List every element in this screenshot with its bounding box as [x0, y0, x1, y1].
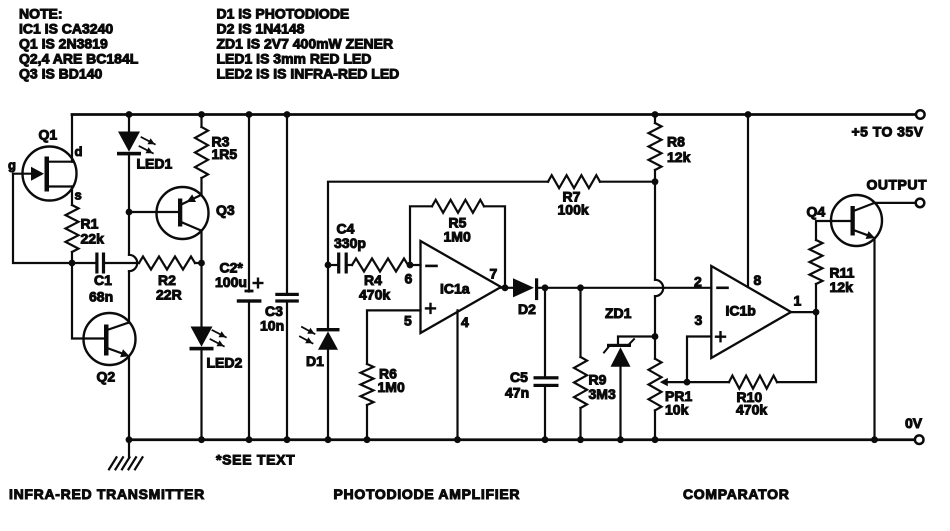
transistor Q1 gate lead: [13, 173, 31, 175]
node C5 junction: [542, 284, 549, 291]
wire node to C4: [328, 264, 337, 266]
node rail/R3 junction: [198, 111, 205, 118]
svg-text:LED2: LED2: [207, 354, 243, 370]
LED LED1: [118, 132, 140, 152]
wire top supply rail +5V: [72, 113, 916, 116]
capacitor C2: [245, 290, 254, 293]
svg-text:1M0: 1M0: [378, 379, 405, 395]
wire R11 to Q4 base: [816, 221, 851, 240]
wire node to C5: [544, 288, 546, 377]
transistor Q4 base bar: [851, 206, 855, 236]
node output/R10/R11 junction: [813, 309, 820, 316]
svg-text:IC1b: IC1b: [726, 303, 756, 319]
wire Q3 collector to node: [200, 231, 202, 263]
transistor Q4 collector: [855, 203, 875, 211]
resistor R4: [352, 259, 408, 272]
transistor Q1 source lead: [47, 185, 73, 187]
wire node X to ZD1: [618, 337, 655, 345]
wire R3 to Q3 emitter: [200, 178, 202, 195]
LED2 light arrows: [213, 330, 226, 337]
node R9 junction: [577, 284, 584, 291]
transistor Q4 body: [831, 195, 882, 246]
node C5/rail junction: [542, 436, 549, 443]
svg-text:10n: 10n: [260, 317, 284, 333]
wire PR1 to rail: [654, 410, 656, 439]
wire LED1 to base node: [128, 155, 130, 212]
preset PR1: [649, 359, 662, 411]
svg-text:D1 IS PHOTODIODE: D1 IS PHOTODIODE: [217, 5, 350, 21]
svg-text:LED2 IS IS INFRA-RED LED: LED2 IS IS INFRA-RED LED: [217, 65, 400, 81]
wire Q1 gate feedback: [13, 174, 72, 263]
IC1a minus sign: [427, 265, 437, 268]
transistor Q1 body: [23, 147, 77, 201]
node ZD1 wire junction: [652, 333, 659, 340]
svg-text:LED1 IS 3mm RED LED: LED1 IS 3mm RED LED: [217, 50, 372, 66]
svg-text:ZD1: ZD1: [605, 305, 632, 321]
svg-text:Q2: Q2: [97, 368, 116, 384]
resistor R7: [548, 175, 600, 188]
wire wiper to pin 3: [687, 337, 711, 383]
wire bottom 0V rail: [129, 438, 915, 441]
IC1a plus sign: [426, 307, 435, 309]
wire R5 right leg: [484, 206, 505, 287]
resistor R3: [195, 127, 208, 178]
photodiode D1: [317, 328, 340, 331]
wire hop to ZD1 node: [654, 296, 656, 336]
wire rail to C2: [248, 115, 250, 292]
svg-text:D2 IS 1N4148: D2 IS 1N4148: [217, 20, 305, 36]
terminal 0V: [915, 435, 924, 444]
svg-text:*SEE TEXT: *SEE TEXT: [216, 452, 295, 468]
wire R1 bottom: [71, 252, 73, 263]
wire amp top feedback left: [328, 182, 548, 265]
svg-text:2: 2: [694, 274, 702, 290]
svg-text:330p: 330p: [334, 235, 366, 251]
svg-text:1M0: 1M0: [444, 228, 471, 244]
svg-text:Q1: Q1: [39, 127, 58, 143]
node wiper junction: [684, 379, 691, 386]
node R9/rail junction: [577, 436, 584, 443]
svg-text:s: s: [75, 188, 82, 203]
resistor R5: [432, 200, 484, 213]
IC1b plus sign: [716, 336, 725, 338]
wire pin 4 to rail: [456, 310, 458, 439]
transistor Q3 collector: [182, 223, 201, 231]
wire hop over pin2 wire: [655, 280, 663, 296]
wire C1 node to Q2 base: [72, 263, 104, 339]
svg-text:8: 8: [754, 272, 762, 288]
node LED2/rail junction: [198, 436, 205, 443]
svg-text:D2: D2: [518, 301, 536, 317]
terminal +5V supply: [916, 110, 925, 119]
node rail/C2 junction: [246, 111, 253, 118]
wire output node to R11: [815, 284, 817, 312]
svg-text:COMPARATOR: COMPARATOR: [683, 486, 790, 502]
svg-text:1: 1: [794, 292, 802, 308]
node X R7/R8 junction: [652, 178, 659, 185]
svg-text:4: 4: [461, 314, 469, 330]
wire R5 left leg: [410, 206, 432, 265]
svg-text:5: 5: [404, 313, 412, 329]
svg-text:PHOTODIODE AMPLIFIER: PHOTODIODE AMPLIFIER: [334, 486, 521, 502]
wire Q4 collector to output terminal: [875, 202, 916, 204]
wire node down to hop: [128, 212, 130, 255]
IC1b minus sign: [718, 286, 728, 289]
capacitor C3: [275, 293, 299, 296]
wire R8 to node X: [654, 170, 656, 182]
transistor Q1 drain lead: [47, 161, 73, 163]
svg-text:IC1 IS CA3240: IC1 IS CA3240: [19, 20, 113, 36]
resistor R1: [66, 205, 79, 252]
svg-text:1R5: 1R5: [212, 146, 238, 162]
svg-text:470k: 470k: [736, 401, 767, 417]
resistor R11: [810, 240, 823, 284]
svg-text:NOTE:: NOTE:: [19, 5, 63, 21]
svg-text:100k: 100k: [558, 202, 589, 218]
svg-text:12k: 12k: [667, 149, 691, 165]
svg-text:Q4: Q4: [807, 204, 826, 220]
node C2/rail junction: [246, 436, 253, 443]
node rail/R8 junction: [652, 111, 659, 118]
node D1/rail junction: [325, 436, 332, 443]
svg-text:D1: D1: [306, 353, 324, 369]
zener ZD1: [607, 344, 631, 347]
svg-text:Q1 IS 2N3819: Q1 IS 2N3819: [19, 35, 108, 51]
svg-text:Q3: Q3: [216, 202, 235, 218]
svg-text:100u: 100u: [215, 274, 247, 290]
svg-text:C5: C5: [510, 369, 528, 385]
node R2/Q3 collector junction: [198, 260, 205, 267]
transistor Q2 base bar: [104, 325, 109, 356]
svg-text:10k: 10k: [665, 402, 689, 418]
transistor Q2 body: [84, 313, 136, 365]
wire rail to C3: [286, 115, 288, 294]
wire C2 to rail: [248, 303, 250, 440]
wire output to D2: [501, 287, 513, 289]
node IC1a output junction: [502, 284, 509, 291]
node ZD1/rail junction: [617, 436, 624, 443]
wire rail to R8: [654, 115, 656, 124]
svg-text:3: 3: [695, 312, 703, 328]
resistor R10: [729, 376, 777, 389]
svg-text:R11: R11: [830, 265, 855, 281]
node Q4 emitter/rail junction: [871, 436, 878, 443]
node R6/rail junction: [364, 436, 371, 443]
wire ZD1 to rail: [619, 367, 621, 440]
capacitor C5: [534, 376, 559, 379]
wire C3 to rail: [286, 303, 288, 440]
wire junction to C1: [72, 262, 96, 264]
PR1 wiper arrow: [660, 378, 668, 386]
wire hop to Q2 collector: [128, 271, 130, 322]
wire LED2 to rail: [200, 350, 202, 439]
diode D2: [513, 278, 534, 297]
wire Q1 source to R1: [71, 187, 73, 206]
svg-text:Q2,4 ARE BC184L: Q2,4 ARE BC184L: [19, 50, 139, 66]
terminal OUTPUT: [916, 199, 925, 208]
transistor Q3 base bar: [178, 199, 182, 227]
wire node to D1: [327, 265, 329, 329]
wire IC1b output: [791, 311, 816, 313]
svg-text:C1: C1: [94, 272, 112, 288]
svg-text:IC1a: IC1a: [440, 280, 470, 296]
svg-text:LED1: LED1: [137, 156, 173, 172]
wire C5 to rail: [544, 387, 546, 440]
svg-text:0V: 0V: [905, 415, 923, 431]
svg-text:Q3 IS BD140: Q3 IS BD140: [19, 65, 102, 81]
wire D1 to rail: [327, 350, 329, 440]
wire rail to LED1: [128, 115, 130, 133]
transistor Q1 channel bar: [45, 157, 50, 192]
wire pin 8 supply: [747, 115, 749, 288]
svg-text:3M3: 3M3: [589, 386, 616, 402]
node R1/C1/gate junction: [69, 260, 76, 267]
wire Q3 base lead: [129, 211, 178, 213]
wire hop over C1-R2 wire: [129, 255, 137, 271]
wire Q4 emitter to rail: [873, 238, 875, 440]
svg-text:ZD1 IS 2V7 400mW ZENER: ZD1 IS 2V7 400mW ZENER: [217, 35, 394, 51]
wire rail to Q1 drain: [71, 115, 73, 162]
ground: [128, 440, 130, 458]
wire Q2 emitter to rail: [128, 356, 130, 440]
transistor Q2 emitter: [109, 349, 126, 355]
wire node X down to hop: [654, 182, 656, 280]
resistor R6: [361, 364, 374, 405]
resistor R8: [649, 123, 662, 170]
C2 plus sign: [254, 282, 263, 284]
wire pin 5 to R6: [367, 310, 421, 364]
wire R2 right: [195, 262, 202, 264]
D1 light arrows: [302, 327, 315, 334]
resistor R9: [574, 357, 587, 408]
wire wiper to R10: [687, 381, 729, 383]
svg-text:47n: 47n: [505, 385, 529, 401]
LED1 light arrows: [142, 137, 155, 144]
svg-text:68n: 68n: [89, 289, 113, 305]
svg-text:d: d: [75, 144, 83, 159]
svg-text:g: g: [8, 158, 16, 173]
wire R10 to output node: [777, 312, 816, 382]
transistor Q3 emitter: [182, 195, 201, 204]
svg-text:+5 TO 35V: +5 TO 35V: [852, 124, 924, 140]
wire rail to R3: [200, 115, 202, 128]
svg-text:OUTPUT: OUTPUT: [867, 176, 928, 192]
node C4/D1 junction: [325, 262, 332, 269]
svg-text:INFRA-RED TRANSMITTER: INFRA-RED TRANSMITTER: [9, 486, 205, 502]
svg-text:22k: 22k: [81, 231, 105, 247]
transistor Q3 body: [157, 187, 209, 239]
transistor Q4 emitter: [855, 231, 871, 237]
resistor R2: [139, 257, 195, 270]
svg-text:R1: R1: [81, 215, 99, 231]
capacitor C4 plates: [337, 253, 340, 274]
wire D2 to comparator pin2: [538, 287, 712, 289]
wire R6 to rail: [366, 405, 368, 440]
op-amp IC1b: [711, 266, 791, 358]
node R4/R5/pin6 junction: [407, 262, 414, 269]
wire R9 to rail: [579, 408, 581, 440]
wire node to LED2: [200, 263, 202, 327]
node PR1/rail junction: [652, 436, 659, 443]
svg-text:7: 7: [490, 266, 498, 282]
wire R7 to node X: [600, 181, 655, 183]
LED LED2: [191, 327, 213, 347]
node rail/LED1 junction: [126, 111, 133, 118]
svg-text:470k: 470k: [359, 287, 390, 303]
node rail/pin8 junction: [745, 111, 752, 118]
node Q2/rail/ground junction: [126, 436, 133, 443]
svg-text:6: 6: [405, 271, 413, 287]
node C3/rail junction: [284, 436, 291, 443]
wire C1 to R2: [105, 262, 139, 264]
svg-text:22R: 22R: [156, 287, 182, 303]
wire node to R9: [579, 288, 581, 357]
wire C4 to R4: [348, 264, 352, 266]
wire node to PR1: [654, 337, 656, 359]
svg-text:12k: 12k: [830, 279, 854, 295]
transistor Q2 collector: [109, 323, 130, 330]
svg-text:R8: R8: [667, 134, 685, 150]
wire pin 6 stub: [410, 264, 421, 266]
node pin4/rail junction: [454, 436, 461, 443]
capacitor C1 plates: [95, 253, 98, 274]
node rail/C3 junction: [284, 111, 291, 118]
node LED1/Q3 base junction: [126, 209, 133, 216]
op-amp IC1a: [421, 241, 502, 333]
